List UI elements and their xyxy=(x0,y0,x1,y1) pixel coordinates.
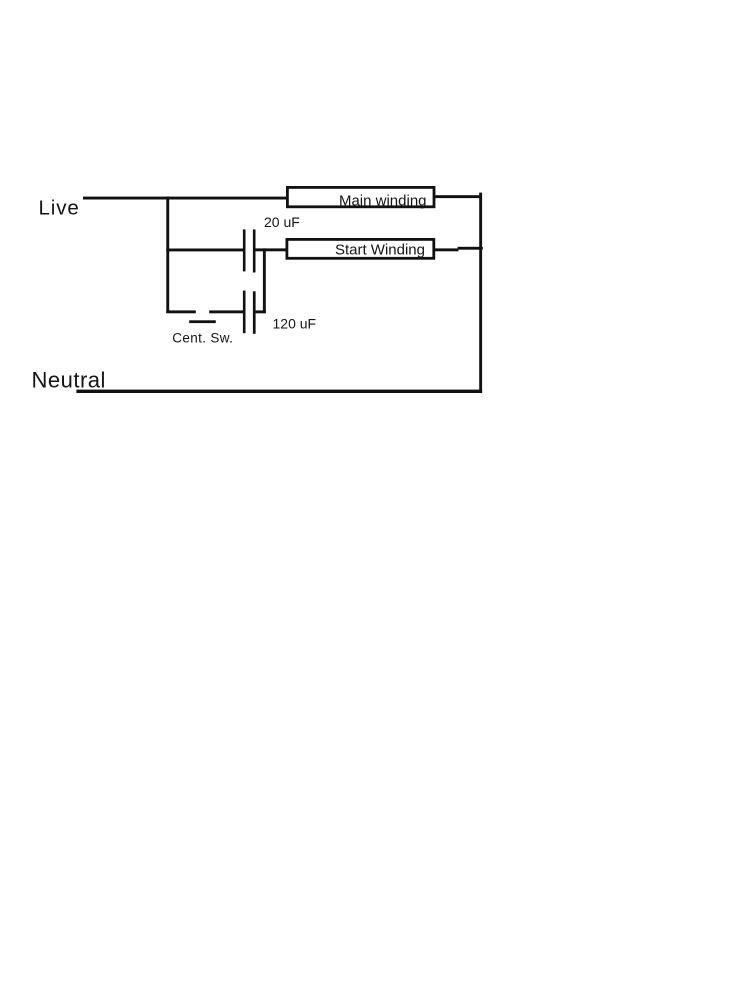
wire middle branch to 20uF capacitor xyxy=(166,249,243,252)
wire switch branch left segment xyxy=(166,310,196,313)
resistor box: Main winding xyxy=(287,187,434,209)
svg-text:Cent. Sw.: Cent. Sw. xyxy=(172,331,233,346)
wire 20uF capacitor to Start Winding box xyxy=(255,248,288,251)
wire right vertical bus xyxy=(479,193,482,393)
svg-text:20 uF: 20 uF xyxy=(264,214,300,230)
svg-text:Main winding: Main winding xyxy=(339,193,427,210)
wire Main winding to right bus xyxy=(435,195,481,198)
svg-text:Neutral: Neutral xyxy=(32,367,106,392)
wire left vertical bus (Live branch down) xyxy=(166,197,169,313)
wire Neutral horizontal bus xyxy=(76,390,482,393)
switch Cent. Sw. bar xyxy=(189,320,216,323)
capacitor C2 120uF right plate xyxy=(253,291,256,334)
svg-text:Start Winding: Start Winding xyxy=(335,241,425,258)
capacitor C1 20uF right plate xyxy=(253,229,256,272)
resistor box: Start Winding xyxy=(287,239,434,258)
svg-text:120 uF: 120 uF xyxy=(273,316,317,332)
capacitor C1 20uF left plate xyxy=(243,229,246,271)
wire junction vertical (start wire down to 120uF) xyxy=(263,248,266,313)
wire Start Winding to right bus segment 2 xyxy=(458,247,483,250)
wire Live horizontal feed xyxy=(83,197,288,200)
svg-text:Live: Live xyxy=(39,197,80,220)
wire switch branch right segment xyxy=(209,310,245,313)
wire 120uF capacitor to junction vertical xyxy=(256,310,266,313)
wire Start Winding to right bus segment 1 xyxy=(435,248,459,251)
capacitor C2 120uF left plate xyxy=(243,291,246,334)
